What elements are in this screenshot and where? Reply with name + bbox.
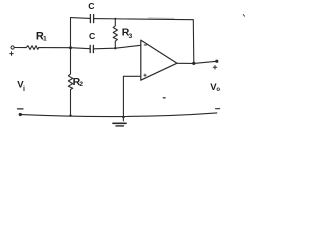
svg-text:o: o: [216, 87, 220, 93]
svg-text:C: C: [88, 1, 95, 11]
svg-text:1: 1: [43, 36, 47, 43]
svg-text:i: i: [23, 86, 25, 93]
svg-text:3: 3: [129, 33, 133, 40]
svg-text:2: 2: [79, 81, 83, 88]
svg-text:C: C: [89, 31, 96, 41]
